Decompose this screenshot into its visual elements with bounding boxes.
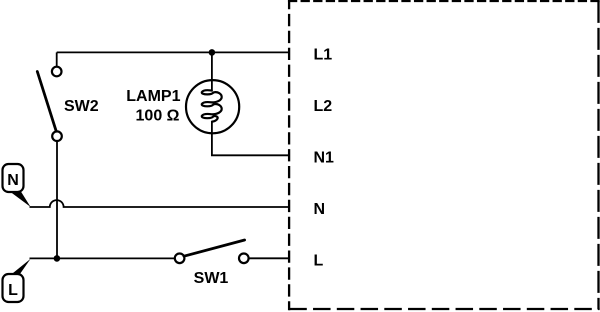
svg-text:N: N: [314, 201, 326, 218]
svg-text:100 Ω: 100 Ω: [136, 108, 180, 125]
wire SW1 to L pin: [249, 257, 290, 259]
svg-text:N1: N1: [314, 149, 335, 166]
svg-text:L1: L1: [314, 46, 333, 63]
junction node L1/lamp: [209, 49, 216, 56]
junction node L/SW2: [54, 255, 61, 262]
svg-text:N: N: [7, 172, 19, 189]
svg-text:SW2: SW2: [64, 98, 99, 115]
wire N net with hop over SW2 column: [30, 200, 290, 207]
switch SW2: [37, 67, 62, 141]
svg-text:L: L: [314, 252, 324, 269]
net flag L: [3, 259, 31, 302]
net flag N: [3, 164, 31, 207]
svg-text:SW1: SW1: [194, 270, 229, 287]
enclosure dashed box: [288, 0, 600, 310]
wire L1 net top: [57, 51, 290, 53]
wire SW2 top stub: [56, 52, 58, 66]
lamp LAMP1: [186, 80, 239, 133]
switch SW1: [175, 240, 249, 263]
wire lamp bottom lead to N1: [212, 122, 290, 156]
wire L net left: [30, 257, 175, 259]
svg-text:L: L: [8, 282, 18, 299]
svg-text:LAMP1: LAMP1: [126, 88, 180, 105]
svg-text:L2: L2: [314, 98, 333, 115]
wire lamp top lead: [211, 52, 213, 90]
wire SW2 bottom to L junction: [56, 141, 58, 258]
